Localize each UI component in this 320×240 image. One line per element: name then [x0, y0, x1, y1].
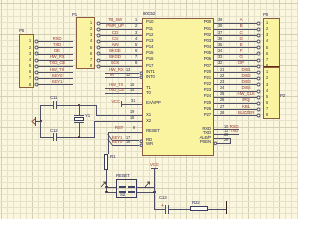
wire net HW_CLK from U1 P24 pin 25 to P2 pin 5: [214, 97, 256, 98]
wire C13 to R22: [169, 209, 190, 210]
wire bottom chain horizontal: [154, 209, 165, 210]
button S2 RESET: [116, 174, 130, 178]
wire net IR to U1 INT0 pin 12: [105, 77, 140, 78]
wire U1 PSEN pin 29: [213, 141, 218, 146]
wire net DIS4 from U1 P23 pin 24 to P2 pin 4: [214, 91, 256, 92]
wire net C from U1 P02 pin 37 to P0 pin 3: [214, 35, 256, 36]
node button left junctions: [105, 186, 107, 188]
node crystal bottom junction: [78, 136, 80, 138]
U1 pin names P00-P07: [204, 20, 211, 24]
wire U1 ALE pin 30: [214, 138, 230, 139]
wire X2 corner: [94, 121, 95, 137]
connector P2: [263, 67, 280, 119]
U1 pin names INT1 INT0 T1 T0 EA X1 X2 RESET RD WR: [146, 70, 155, 74]
resistor R22: [192, 201, 199, 205]
wire button left stubs: [106, 187, 116, 188]
P1 pin 4 wire / net CS to U1 P13: [96, 39, 101, 44]
P5 pin 7 wire / net KEY0: [34, 76, 39, 81]
P5 pin 5 wire / net TXD_CE: [34, 64, 39, 69]
wire U1 X1 pin 19: [96, 115, 142, 116]
wire ALE-PSEN stub vertical: [230, 138, 231, 144]
node button right junction: [153, 191, 155, 193]
wire VCC vertical: [154, 168, 155, 209]
P1 pin 8 wire / net SCK to U1 P17: [96, 64, 101, 69]
ground bar terminal: [226, 201, 228, 214]
P1 pin 6 wire / net BKGE to U1 P15: [96, 51, 101, 56]
wire net DIS3 from U1 P22 pin 23 to P2 pin 3: [214, 84, 256, 85]
wire net RST to U1 RESET pin 9: [108, 132, 143, 133]
ground arrow power port: [35, 121, 41, 122]
wire net B from U1 P01 pin 38 to P0 pin 2: [214, 29, 256, 30]
wire net HW_RX to U1 INT1 pin 13: [105, 73, 140, 74]
connector P1: [72, 13, 77, 17]
wire net KBL from U1 P26 pin 27 to P2 pin 7: [214, 109, 256, 110]
wire net BUZZER from U1 P27 pin 28 to P2 pin 8: [214, 115, 256, 116]
node crystal top junction: [78, 104, 80, 106]
wire net F from U1 P05 pin 34 to P0 pin 6: [214, 54, 256, 55]
wire net HW_TX to U1 T1 pin 15: [105, 88, 143, 89]
wire net G from U1 P06 pin 33 to P0 pin 7: [214, 60, 256, 61]
node gnd junction: [40, 120, 42, 122]
wire U1 X2 pin 18: [94, 121, 142, 122]
P1 pin 2 wire / net PWR_UP to U1 P11: [96, 27, 101, 32]
capacitor C12: [50, 129, 57, 133]
connector P5: [19, 29, 24, 33]
wire net E from U1 P04 pin 35 to P0 pin 5: [214, 47, 256, 48]
wire net TXD from U1 pin 11: [214, 134, 238, 135]
U1 pin names P10-P17: [146, 20, 153, 24]
wire crystal top: [40, 105, 53, 106]
wire R22 to terminal: [208, 209, 226, 210]
wire X1 corner: [96, 105, 97, 116]
power VCC at U1 EA/VPP pin 31: [122, 104, 143, 105]
P1 pin 3 wire / net CD to U1 P12: [96, 33, 101, 38]
wire net RXD from U1 pin 10: [214, 129, 238, 130]
pin mark right: [144, 181, 151, 188]
wire RST vertical to reset circuit: [108, 132, 109, 154]
U1 pin names RXD TXD ALE PSEN: [202, 127, 211, 131]
P1 pin 1 wire / net TB_SW to U1 P10: [96, 21, 101, 26]
wire net DP from U1 P07 pin 32 to P0 pin 8: [214, 66, 256, 67]
P5 pin 2 wire / net TXD: [34, 45, 39, 50]
P1 pin 5 wire / net AIN to U1 P14: [96, 45, 101, 50]
wire button right stubs: [137, 187, 154, 188]
wire net A from U1 P00 pin 39 to P0 pin 1: [214, 23, 256, 24]
wire net D from U1 P03 pin 36 to P0 pin 4: [214, 41, 256, 42]
wire crystal left vertical: [40, 105, 41, 138]
P5 pin 8 wire / net KEY1: [34, 82, 39, 87]
crystal Y1: [85, 114, 90, 118]
connector P0: [263, 13, 268, 17]
wire net KEY1 to U1 RD pin 17: [112, 140, 139, 141]
P5 pin 3 wire / net DE: [34, 51, 39, 56]
wire net DIS1 from U1 P20 pin 21 to P2 pin 1: [214, 72, 256, 73]
power VCC port: [150, 163, 159, 167]
wire net KEY0 to U1 WR pin 16: [112, 145, 139, 146]
capacitor C13 electrolytic: [159, 196, 166, 200]
wire net DIS2 from U1 P21 pin 22 to P2 pin 2: [214, 78, 256, 79]
wire KEY branch diagonals: [106, 133, 115, 146]
P5 pin 6 wire / net HW_TX: [34, 70, 39, 75]
capacitor C11: [50, 96, 57, 100]
U1 pin names P20-P27: [204, 70, 211, 74]
wire crystal bottom: [40, 137, 53, 138]
pin mark left: [100, 181, 107, 188]
P1 pin 7 wire / net BKGD to U1 P16: [96, 58, 101, 63]
P5 pin 1 wire / net RXD: [34, 39, 39, 44]
wire R1 bottom to button: [106, 170, 107, 193]
op IC U1 80C52 body: [143, 12, 155, 16]
resistor R1: [104, 154, 108, 170]
wire net IRQ from U1 P25 pin 26 to P2 pin 6: [214, 103, 256, 104]
grid (decorative): [1, 0, 2, 219]
P5 pin 4 wire / net HW_RX: [34, 58, 39, 63]
wire net TXD_CE to U1 T0 pin 14: [105, 93, 143, 94]
